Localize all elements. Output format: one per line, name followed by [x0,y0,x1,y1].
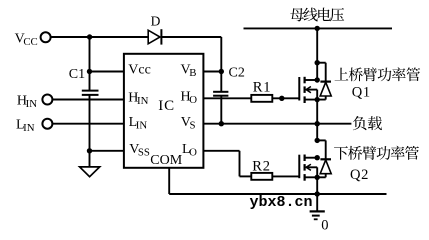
svg-text:COM: COM [150,153,182,168]
svg-text:Q2: Q2 [350,167,369,183]
svg-text:HIN: HIN [17,94,37,110]
svg-text:VCC: VCC [15,31,38,47]
svg-text:R1: R1 [253,80,272,96]
svg-text:Q1: Q1 [352,85,371,101]
svg-text:IC: IC [158,98,175,114]
svg-text:Vcc: Vcc [128,63,151,78]
svg-text:C2: C2 [229,66,245,81]
svg-text:LIN: LIN [16,118,35,134]
svg-text:R2: R2 [252,158,271,174]
svg-text:C1: C1 [69,67,85,82]
svg-text:ybx8.cn: ybx8.cn [250,194,313,211]
svg-text:D: D [151,13,161,28]
svg-text:0: 0 [321,217,328,231]
